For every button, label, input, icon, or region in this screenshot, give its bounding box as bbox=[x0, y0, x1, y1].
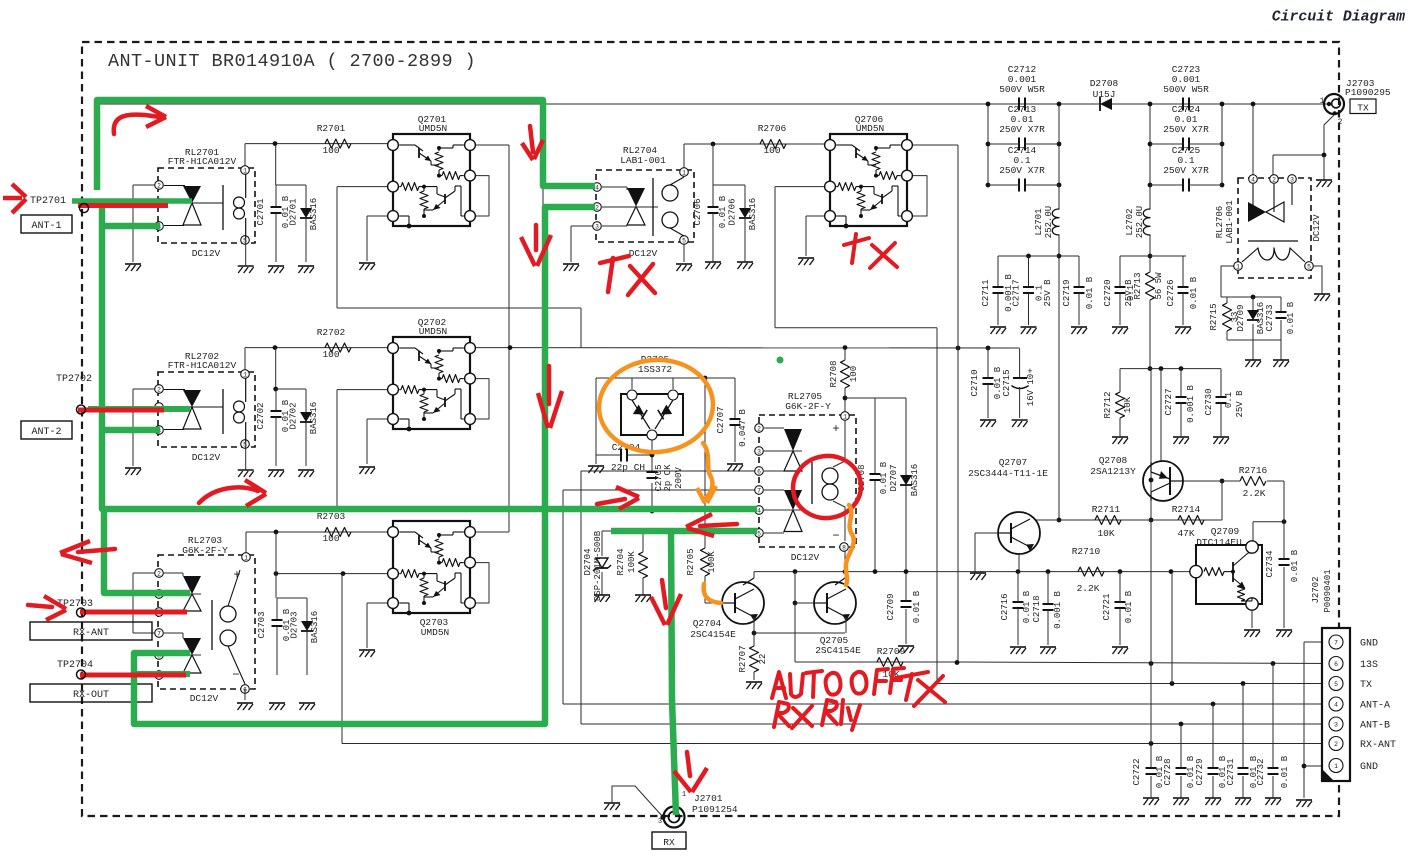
svg-text:C2706: C2706 bbox=[693, 198, 703, 225]
svg-text:250V X7R: 250V X7R bbox=[999, 124, 1045, 135]
red arrow right e bbox=[199, 487, 258, 503]
red arrow down d bbox=[547, 366, 552, 404]
wire RX path y511 bbox=[337, 510, 757, 512]
wire RL2705 pin6 run bbox=[581, 470, 758, 472]
red arrow into TP2701 bbox=[3, 196, 22, 201]
wire C2701 drop bbox=[275, 144, 277, 185]
svg-text:+: + bbox=[832, 422, 839, 436]
ground symbols row1 bbox=[125, 263, 141, 265]
orange hook Q2704 base bbox=[704, 584, 721, 603]
resistor R2702 bbox=[325, 343, 351, 352]
wire x705 vertical bbox=[704, 378, 706, 548]
svg-text:RX-ANT: RX-ANT bbox=[73, 628, 109, 639]
svg-text:BAS316: BAS316 bbox=[309, 402, 319, 434]
wire 13S rail bbox=[957, 662, 1336, 664]
wire Q2701 out vertical x509 bbox=[470, 144, 509, 146]
svg-text:C2719: C2719 bbox=[1062, 279, 1072, 306]
wire x1284 C2734 bbox=[1283, 481, 1285, 559]
wire Q2701 gnd stub bbox=[367, 215, 393, 217]
svg-text:RX-ANT: RX-ANT bbox=[1360, 740, 1396, 751]
red handwriting tx small bbox=[844, 238, 869, 245]
wire R2704 branch bbox=[642, 531, 644, 552]
wire top cap block left rails bbox=[987, 104, 989, 185]
svg-text:13S: 13S bbox=[1360, 660, 1378, 671]
capacitor C2715 electrolytic bbox=[1019, 349, 1021, 379]
relay RL2702 pin5 gnd wire bbox=[245, 442, 247, 470]
svg-text:TX: TX bbox=[1360, 680, 1372, 691]
inductor L2702 bbox=[1143, 209, 1150, 235]
resistor R2703 bbox=[325, 528, 351, 537]
svg-text:5: 5 bbox=[757, 530, 761, 537]
svg-text:7: 7 bbox=[757, 487, 761, 494]
capacitor C2733 bbox=[1276, 311, 1287, 313]
diode D2703 bbox=[306, 598, 308, 621]
svg-text:47K: 47K bbox=[1177, 528, 1194, 539]
wire Q2706 in drop bbox=[775, 186, 830, 188]
orange circle around D2705 bbox=[596, 356, 716, 456]
svg-text:C2717: C2717 bbox=[1012, 279, 1022, 306]
svg-text:LAB1-001: LAB1-001 bbox=[1225, 200, 1235, 243]
svg-text:100: 100 bbox=[322, 145, 339, 156]
svg-text:DC12V: DC12V bbox=[1312, 214, 1322, 242]
wire Q2703 out stub bbox=[470, 531, 509, 533]
capacitor C2731 bbox=[1242, 684, 1244, 769]
capacitor C2710 bbox=[987, 349, 989, 379]
wire Q2706 out vertical x958 bbox=[908, 144, 958, 146]
wire rail y573 bbox=[276, 573, 393, 575]
svg-text:RL2706: RL2706 bbox=[1215, 206, 1225, 238]
svg-text:P1090295: P1090295 bbox=[1345, 87, 1391, 98]
test point circle TP2703 bbox=[77, 608, 86, 617]
svg-text:ANT-UNIT BR014910A ( 2700-2899: ANT-UNIT BR014910A ( 2700-2899 ) bbox=[108, 51, 476, 72]
svg-text:10K: 10K bbox=[1123, 396, 1133, 413]
highlight green RX down to J2701 bbox=[671, 531, 676, 815]
wire Q2709 bottom pin gnd bbox=[1251, 610, 1253, 628]
svg-text:2: 2 bbox=[157, 182, 161, 189]
wire bus y531 bbox=[602, 530, 757, 532]
wire RL2704 pin2 stub bbox=[543, 206, 595, 208]
wire R2715 branch bbox=[1226, 297, 1228, 303]
main dashed border bbox=[82, 42, 1339, 816]
svg-text:R2704: R2704 bbox=[616, 548, 626, 575]
red arrow down c bbox=[534, 225, 539, 250]
wire RL2702 pin1 up bbox=[244, 348, 246, 373]
svg-text:22p CH: 22p CH bbox=[611, 462, 645, 473]
svg-text:0.01 B: 0.01 B bbox=[1286, 301, 1296, 334]
svg-text:D2704: D2704 bbox=[583, 548, 593, 575]
resistor R2710 bbox=[1078, 567, 1104, 576]
wire C2706 drop bbox=[712, 144, 714, 185]
svg-text:25V B: 25V B bbox=[1235, 390, 1245, 418]
svg-text:DC12V: DC12V bbox=[791, 552, 820, 563]
svg-text:250V X7R: 250V X7R bbox=[1163, 165, 1209, 176]
svg-text:R2708: R2708 bbox=[829, 360, 839, 387]
red arrow left g bbox=[700, 524, 737, 526]
capacitor C2734 bbox=[1279, 558, 1290, 560]
svg-text:R2702: R2702 bbox=[317, 327, 346, 338]
svg-text:0.01 B: 0.01 B bbox=[1290, 549, 1300, 582]
svg-text:C2721: C2721 bbox=[1102, 593, 1112, 620]
resistor R2712 bbox=[1119, 369, 1121, 392]
svg-text:1: 1 bbox=[1334, 763, 1338, 770]
wire RX-OUT bottom bbox=[134, 723, 543, 725]
svg-text:500V W5R: 500V W5R bbox=[999, 84, 1045, 95]
wire C2733 branch bbox=[1280, 297, 1282, 312]
highlight red TP2703 bbox=[80, 610, 187, 615]
relay RL2703 left common bbox=[133, 572, 155, 574]
resistor R2711 bbox=[1095, 516, 1121, 525]
capacitor C2722 bbox=[1150, 744, 1152, 769]
red arrow into TP2703 bbox=[28, 605, 52, 607]
svg-text:C2718: C2718 bbox=[1032, 595, 1042, 622]
capacitor C2717 bbox=[1028, 256, 1030, 287]
wire Q2706 gnd stub bbox=[806, 215, 830, 217]
relay RL2703 pin8 gnd wire bbox=[244, 689, 246, 700]
svg-text:100K: 100K bbox=[627, 551, 637, 573]
capacitor C2704 bbox=[620, 449, 622, 462]
resistor R2709 bbox=[877, 658, 903, 667]
wire C2709 branch bbox=[905, 572, 907, 601]
test point circle TP2702 bbox=[77, 405, 86, 414]
svg-text:1: 1 bbox=[1320, 97, 1325, 106]
svg-text:2SA1213Y: 2SA1213Y bbox=[1090, 466, 1136, 477]
wire L2701 column bbox=[1058, 185, 1060, 209]
wire rail y532 R2703 bbox=[246, 531, 393, 533]
wire x1172 link bbox=[1171, 572, 1173, 684]
label box RX-OUT bbox=[30, 684, 152, 702]
highlight green dot bbox=[777, 357, 784, 364]
svg-text:TX: TX bbox=[1357, 103, 1369, 114]
svg-text:RX: RX bbox=[663, 837, 675, 848]
svg-text:2SC4154E: 2SC4154E bbox=[815, 645, 861, 656]
svg-text:GND: GND bbox=[1360, 762, 1378, 773]
svg-text:C2731: C2731 bbox=[1226, 758, 1236, 785]
resistor R2705 bbox=[701, 548, 710, 576]
svg-text:3: 3 bbox=[658, 818, 662, 826]
svg-text:1: 1 bbox=[682, 169, 686, 176]
svg-text:TP2704: TP2704 bbox=[57, 660, 93, 671]
wire RL2703 pin1 up bbox=[245, 532, 247, 558]
relay RL2705 contacts bbox=[784, 429, 802, 451]
wire RL2704 pin3 gnd bbox=[571, 225, 597, 227]
wire RL2701 pin1 up bbox=[244, 144, 246, 170]
wire emitters y633 bbox=[754, 632, 845, 634]
wire Q2702 right strap bbox=[470, 379, 489, 419]
svg-text:C2726: C2726 bbox=[1166, 279, 1176, 306]
svg-text:250V X7R: 250V X7R bbox=[1163, 124, 1209, 135]
svg-text:0.01 B: 0.01 B bbox=[1022, 590, 1032, 623]
svg-text:100: 100 bbox=[763, 145, 780, 156]
svg-text:1: 1 bbox=[682, 791, 686, 799]
wire Q2703 right strap bbox=[470, 563, 489, 603]
capacitor C2708 labels bbox=[870, 473, 881, 475]
capacitor C2711 bbox=[997, 256, 999, 287]
svg-text:56 5W: 56 5W bbox=[1154, 272, 1164, 300]
capacitor C2730 bbox=[1220, 369, 1222, 397]
resistor R2715 bbox=[1223, 303, 1232, 331]
wire RL2704 pin4 stub bbox=[543, 185, 596, 187]
highlight green RX bus bbox=[611, 528, 757, 535]
highlight red TP2701 bbox=[78, 203, 168, 208]
svg-text:25V B: 25V B bbox=[1124, 279, 1134, 307]
svg-text:5: 5 bbox=[682, 237, 686, 244]
svg-text:C2729: C2729 bbox=[1195, 758, 1205, 785]
resistor R2716 bbox=[1240, 477, 1266, 486]
diode D2707 bbox=[900, 475, 912, 485]
capacitor C2728 bbox=[1180, 724, 1182, 768]
wire D2704 branch bbox=[601, 531, 603, 556]
svg-text:0.01 B: 0.01 B bbox=[718, 195, 728, 228]
svg-text:R2716: R2716 bbox=[1239, 465, 1268, 476]
svg-text:D2706: D2706 bbox=[728, 198, 738, 225]
svg-text:BAS316: BAS316 bbox=[910, 464, 920, 496]
svg-text:C2709: C2709 bbox=[886, 593, 896, 620]
highlight green stub pin3 RL2702 bbox=[103, 427, 160, 434]
svg-text:2: 2 bbox=[1272, 176, 1276, 183]
red arrow top-left curved bbox=[114, 115, 160, 134]
svg-text:P0090401: P0090401 bbox=[1323, 569, 1333, 612]
svg-text:0.001 B: 0.001 B bbox=[1186, 385, 1196, 423]
test point circle TP2704 bbox=[77, 670, 86, 679]
red circle around RL2705 coil bbox=[789, 452, 865, 523]
svg-text:D2702: D2702 bbox=[289, 402, 299, 429]
svg-text:Q2709: Q2709 bbox=[1211, 526, 1240, 537]
svg-text:TP2701: TP2701 bbox=[30, 196, 66, 207]
relay RL2702 bbox=[133, 388, 155, 390]
wire RL2705 pin8 to Q2705 bbox=[844, 547, 846, 572]
relay RL2704 coil bbox=[652, 178, 654, 236]
svg-text:DC12V: DC12V bbox=[629, 248, 658, 259]
wire Q2709 dot on y571 bbox=[1231, 570, 1235, 574]
highlight green TX trace bbox=[97, 100, 595, 190]
label box ANT-2 bbox=[21, 421, 72, 439]
test point circle TP2701 bbox=[80, 204, 89, 213]
svg-text:2: 2 bbox=[157, 570, 161, 577]
orange arrow tail bbox=[703, 443, 712, 499]
wire rail y520 bbox=[1036, 519, 1222, 521]
wire GND column x1304 bbox=[1303, 642, 1305, 798]
wire RX-ANT rail bbox=[342, 743, 1336, 745]
svg-text:2.2K: 2.2K bbox=[1243, 488, 1266, 499]
svg-text:10K: 10K bbox=[1097, 528, 1114, 539]
svg-text:ANT-B: ANT-B bbox=[1360, 721, 1390, 732]
svg-text:4: 4 bbox=[595, 184, 599, 191]
svg-text:C2715: C2715 bbox=[1002, 369, 1012, 396]
capacitor C2720 bbox=[1119, 256, 1121, 287]
wire Q2703 gnd stub bbox=[367, 602, 393, 604]
wire rail y143 R2701 bbox=[245, 143, 393, 145]
wire rail y347 right bbox=[470, 347, 1020, 349]
diode D2701 bbox=[305, 185, 307, 208]
wire D2705 top bus bbox=[596, 377, 705, 379]
red handwriting TX bbox=[600, 256, 629, 263]
svg-text:C2733: C2733 bbox=[1265, 304, 1275, 331]
relay RL2703 coil bbox=[211, 600, 213, 650]
wire Q2702 in drop bbox=[337, 389, 393, 391]
svg-text:C2716: C2716 bbox=[1000, 593, 1010, 620]
ground symbols row3 bbox=[1112, 436, 1128, 438]
relay RL2701 pin5 gnd wire bbox=[245, 238, 247, 266]
svg-text:3: 3 bbox=[1334, 721, 1338, 728]
svg-text:C2728: C2728 bbox=[1163, 758, 1173, 785]
wire Q2708 emitter up bbox=[1160, 369, 1162, 462]
wire Q2705 base drop bbox=[794, 572, 796, 603]
svg-text:2: 2 bbox=[757, 425, 761, 432]
svg-text:BAS316: BAS316 bbox=[309, 198, 319, 230]
svg-text:3: 3 bbox=[1290, 176, 1294, 183]
svg-text:5: 5 bbox=[243, 441, 247, 448]
svg-text:UMD5N: UMD5N bbox=[856, 123, 885, 134]
svg-text:100: 100 bbox=[322, 533, 339, 544]
svg-text:C2702: C2702 bbox=[256, 402, 266, 429]
svg-text:FTR-H1CA012V: FTR-H1CA012V bbox=[168, 156, 237, 167]
wire Q2701 in loop bbox=[337, 186, 393, 188]
highlight green RL2704 pin2 trace bbox=[134, 207, 595, 724]
svg-text:R2703: R2703 bbox=[317, 511, 346, 522]
diode D2702 bbox=[305, 389, 307, 412]
svg-text:5: 5 bbox=[1307, 263, 1311, 270]
svg-text:252.0U: 252.0U bbox=[1044, 206, 1054, 238]
capacitor C2726 bbox=[1182, 256, 1184, 287]
wire RL2706 pin1 branch bbox=[1221, 266, 1238, 297]
red arrow left j bbox=[78, 549, 115, 552]
wire J2703 pin2 path bbox=[1324, 115, 1334, 155]
svg-text:500V W5R: 500V W5R bbox=[1163, 84, 1209, 95]
svg-text:6: 6 bbox=[757, 468, 761, 475]
svg-text:R2707: R2707 bbox=[738, 645, 748, 672]
highlight green RL2703 pin3 bbox=[104, 509, 190, 593]
red handwriting AUTO OFF TX bbox=[772, 672, 786, 698]
svg-text:1: 1 bbox=[1236, 263, 1240, 270]
svg-text:ANT-A: ANT-A bbox=[1360, 701, 1390, 712]
orange squiggle RL2705 bbox=[846, 505, 854, 585]
svg-text:0.01 B: 0.01 B bbox=[1280, 755, 1290, 788]
wire C2707 branch bbox=[705, 377, 735, 379]
highlight red TP2702 bbox=[78, 408, 164, 413]
resistor R2708 bbox=[841, 360, 850, 388]
svg-text:D2709: D2709 bbox=[1236, 304, 1246, 331]
svg-text:P1091254: P1091254 bbox=[692, 804, 738, 815]
svg-text:D2703: D2703 bbox=[290, 611, 300, 638]
svg-text:ANT-1: ANT-1 bbox=[31, 221, 61, 232]
svg-text:C2710: C2710 bbox=[970, 369, 980, 396]
label box RX-ANT bbox=[30, 622, 152, 640]
highlight green stub pin3 RL2701 bbox=[102, 223, 160, 230]
svg-text:C2703: C2703 bbox=[257, 611, 267, 638]
wire D2709 branch bbox=[1252, 297, 1254, 310]
svg-text:5: 5 bbox=[1334, 681, 1338, 688]
svg-text:3: 3 bbox=[595, 223, 599, 230]
resistor R2704 bbox=[639, 552, 648, 578]
wire C2702 drop bbox=[275, 348, 277, 389]
red arrow right f bbox=[597, 499, 625, 504]
svg-text:DC12V: DC12V bbox=[190, 693, 219, 704]
svg-text:D2708: D2708 bbox=[1090, 78, 1119, 89]
svg-text:Circuit Diagram: Circuit Diagram bbox=[1272, 10, 1405, 26]
svg-text:2.2K: 2.2K bbox=[1077, 583, 1100, 594]
relay RL2705 coil bbox=[811, 462, 813, 504]
svg-text:100K: 100K bbox=[707, 551, 717, 573]
label box ANT-1 bbox=[21, 215, 72, 233]
svg-text:Q2708: Q2708 bbox=[1099, 455, 1128, 466]
svg-text:L2701: L2701 bbox=[1034, 208, 1044, 235]
svg-text:2: 2 bbox=[157, 386, 161, 393]
svg-text:R2712: R2712 bbox=[1103, 391, 1113, 418]
wire D2705 bottom to C2705 bbox=[651, 435, 653, 472]
resistor R2706 bbox=[760, 140, 786, 149]
highlight green TP2701 tail bbox=[72, 198, 192, 204]
svg-text:22: 22 bbox=[758, 654, 768, 665]
svg-text:4: 4 bbox=[1251, 176, 1255, 183]
svg-text:Q2707: Q2707 bbox=[999, 457, 1028, 468]
capacitor C2732 bbox=[1272, 664, 1274, 769]
wire top cap block right rails bbox=[1149, 104, 1151, 185]
svg-text:FTR-H1CA012V: FTR-H1CA012V bbox=[168, 360, 237, 371]
wire R2707 branch bbox=[753, 633, 755, 646]
relay RL2704 contacts bbox=[627, 188, 645, 207]
wire x937 TX drop bbox=[775, 327, 937, 329]
svg-text:0.01 B: 0.01 B bbox=[1085, 276, 1095, 309]
svg-text:2p CK: 2p CK bbox=[663, 464, 673, 492]
highlight red TP2704 bbox=[80, 673, 186, 678]
svg-text:R2711: R2711 bbox=[1092, 504, 1121, 515]
svg-text:0.001 B: 0.001 B bbox=[1053, 591, 1063, 629]
svg-text:ANT-2: ANT-2 bbox=[31, 427, 61, 438]
wire R2708 branch bbox=[844, 348, 846, 360]
svg-text:0.01 B: 0.01 B bbox=[1189, 276, 1199, 309]
svg-text:1: 1 bbox=[243, 167, 247, 174]
red arrow down k J2701 bbox=[687, 752, 690, 776]
highlight green TP2704 tail bbox=[134, 671, 190, 677]
wire bus y297 bbox=[1221, 296, 1281, 298]
svg-text:4: 4 bbox=[757, 507, 761, 514]
capacitor C2727 bbox=[1180, 369, 1182, 397]
svg-text:1: 1 bbox=[843, 413, 847, 420]
svg-text:25V B: 25V B bbox=[1043, 279, 1053, 307]
wire Q2709 top pin link bbox=[1253, 521, 1284, 523]
wire x1222 link bbox=[1221, 481, 1223, 520]
wire RL2706 pin5 gnd bbox=[1309, 266, 1322, 294]
svg-text:R2710: R2710 bbox=[1072, 546, 1101, 557]
wire TX rail bbox=[937, 683, 1336, 685]
svg-text:DSP-201M-S00B: DSP-201M-S00B bbox=[593, 530, 603, 601]
highlight green left vertical bbox=[102, 203, 757, 509]
svg-text:4: 4 bbox=[1334, 701, 1338, 708]
svg-text:GND: GND bbox=[1360, 639, 1378, 650]
svg-text:J2702: J2702 bbox=[1311, 576, 1321, 603]
wire bus y368 bbox=[1120, 368, 1221, 370]
ground symbols row4 bbox=[269, 702, 285, 704]
wire L2702 column bbox=[1149, 185, 1151, 209]
svg-text:1: 1 bbox=[243, 371, 247, 378]
svg-text:0.01 B: 0.01 B bbox=[912, 590, 922, 623]
capacitor C2729 bbox=[1212, 704, 1214, 768]
svg-text:L2702: L2702 bbox=[1125, 208, 1135, 235]
svg-text:3: 3 bbox=[757, 448, 761, 455]
capacitor C2707 bbox=[730, 418, 741, 420]
svg-text:R2714: R2714 bbox=[1172, 504, 1201, 515]
capacitor C2705 bbox=[647, 471, 658, 473]
capacitor C2718 bbox=[1043, 603, 1054, 605]
capacitor C2706 bbox=[713, 184, 745, 186]
svg-text:5: 5 bbox=[243, 237, 247, 244]
wire x1151 down bbox=[1150, 369, 1152, 520]
svg-text:G6K-2F-Y: G6K-2F-Y bbox=[785, 401, 831, 412]
relay RL2701 bbox=[133, 184, 155, 186]
capacitor C2703 bbox=[277, 597, 307, 599]
capacitor C2721 bbox=[1115, 601, 1126, 603]
svg-text:C2711: C2711 bbox=[981, 279, 991, 306]
